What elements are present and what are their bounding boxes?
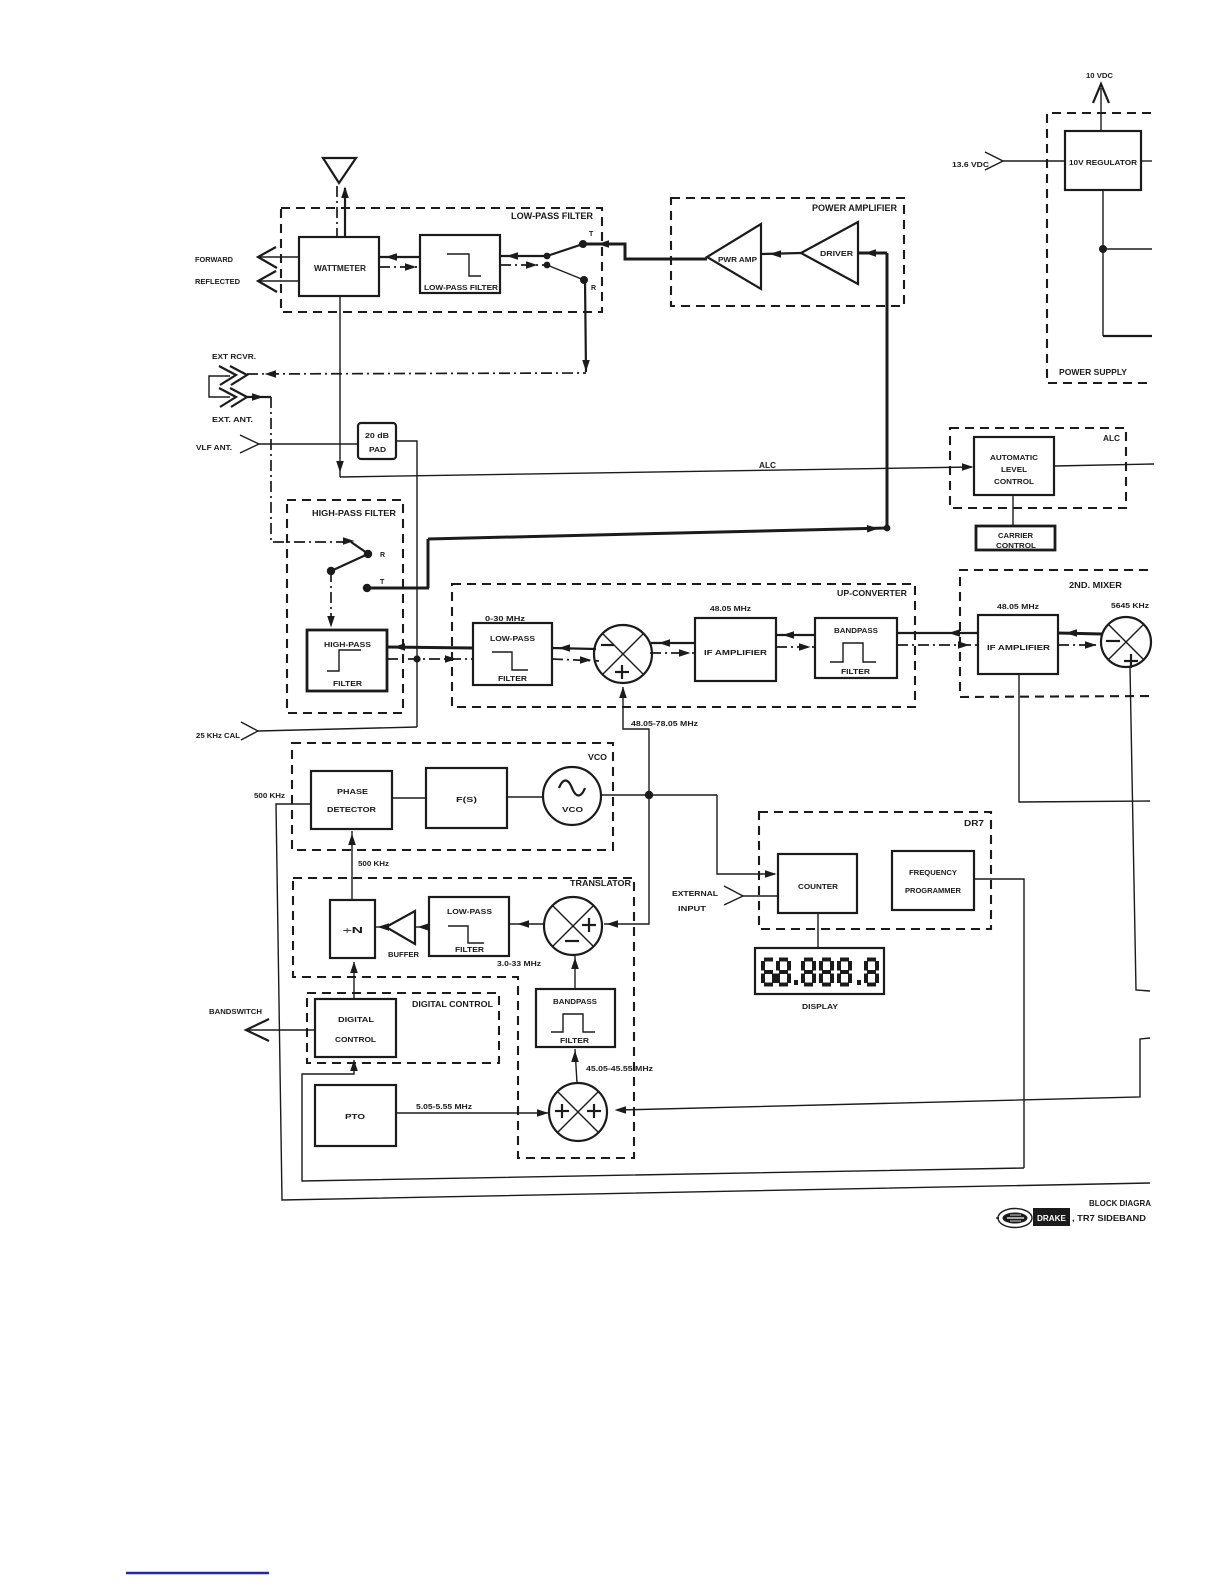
svg-text:COUNTER: COUNTER xyxy=(798,882,839,891)
label 10 VDC xyxy=(1086,73,1113,80)
wire buffer input xyxy=(415,923,429,931)
logo Drake oval xyxy=(996,1209,1032,1228)
svg-text:3.0-33 MHz: 3.0-33 MHz xyxy=(497,961,542,968)
wire 2nd IF to mixer TX xyxy=(1058,629,1102,637)
node junction RX line xyxy=(413,655,420,662)
wire vlf ant to pad xyxy=(259,443,358,445)
svg-text:FILTER: FILTER xyxy=(333,679,363,688)
block IF AMPLIFIER xyxy=(695,618,776,681)
wire IF amp to bandpass RX dash-dot xyxy=(776,643,815,651)
dashed enclosure HIGH-PASS FILTER xyxy=(287,500,403,713)
svg-text:ALC: ALC xyxy=(759,461,776,470)
svg-text:PHASE: PHASE xyxy=(337,787,368,796)
svg-text:POWER AMPLIFIER: POWER AMPLIFIER xyxy=(812,203,897,214)
block PTO xyxy=(315,1085,396,1146)
svg-text:48.05 MHz: 48.05 MHz xyxy=(710,604,751,613)
wire high-pass output RX dash-dot xyxy=(387,655,473,663)
node R (low-pass filter) xyxy=(580,276,596,292)
label REFLECTED xyxy=(195,277,241,286)
block LOW-PASS FILTER (translator) xyxy=(429,897,509,956)
wire mixer M4 to bandpass xyxy=(571,1049,579,1083)
svg-text:LOW-PASS: LOW-PASS xyxy=(447,907,492,916)
wire IF amp to bandpass TX xyxy=(776,631,815,639)
svg-text:FILTER: FILTER xyxy=(560,1036,590,1045)
wire VCO to counter xyxy=(717,795,777,878)
block BANDPASS FILTER xyxy=(815,618,897,678)
svg-text:, TR7 SIDEBAND: , TR7 SIDEBAND xyxy=(1072,1213,1146,1223)
amplifier DRIVER xyxy=(801,222,858,284)
oscillator VCO xyxy=(543,767,601,825)
svg-text:R: R xyxy=(591,285,596,292)
svg-text:INPUT: INPUT xyxy=(678,904,707,913)
svg-text:DIGITAL: DIGITAL xyxy=(338,1015,374,1024)
label EXT ANT xyxy=(212,415,253,424)
wire regulator down branch xyxy=(1099,190,1152,336)
label 48.05 MHz (2nd mixer) xyxy=(997,604,1040,611)
node T (low-pass filter) xyxy=(579,231,594,248)
label 48.05 MHz xyxy=(710,604,751,613)
wire VCO injection to mixer M1 xyxy=(619,687,649,796)
label 13.6 VDC xyxy=(952,162,989,169)
svg-text:IF AMPLIFIER: IF AMPLIFIER xyxy=(987,643,1051,652)
svg-text:PWR AMP: PWR AMP xyxy=(718,257,757,264)
wire ext rcvr line dash-dot xyxy=(247,370,586,378)
wire ALC output right xyxy=(1054,464,1154,466)
label ALC (wire) xyxy=(759,461,776,470)
svg-text:48.05-78.05 MHz: 48.05-78.05 MHz xyxy=(631,721,699,728)
wire cal input xyxy=(258,727,417,731)
wire mixer M3 to low-pass xyxy=(509,920,544,928)
wire low-pass to mixer RX dash-dot xyxy=(552,656,599,664)
svg-text:÷N: ÷N xyxy=(343,926,363,935)
svg-text:DRAKE: DRAKE xyxy=(1037,1214,1067,1223)
node T (high-pass filter) xyxy=(363,579,385,592)
svg-text:HIGH-PASS: HIGH-PASS xyxy=(324,640,371,649)
wire regulator output right xyxy=(1141,160,1152,162)
svg-text:ALC: ALC xyxy=(1103,433,1120,443)
block 20 dB PAD xyxy=(358,423,396,459)
svg-text:BUFFER: BUFFER xyxy=(388,952,419,959)
wire ext ant to RX riser xyxy=(247,393,271,401)
block PHASE DETECTOR xyxy=(311,771,392,829)
block HIGH-PASS FILTER xyxy=(307,630,387,691)
chevron input 13.6 VDC xyxy=(985,152,1003,170)
bracket linking ext connectors xyxy=(209,376,230,397)
svg-text:PTO: PTO xyxy=(345,1112,365,1121)
label TR7 SIDEBAND xyxy=(1072,1213,1146,1223)
wire F(S) to VCO xyxy=(507,796,543,798)
node R (high-pass filter) xyxy=(364,550,385,559)
label BLOCK DIAGRAM (cut) xyxy=(1089,1198,1151,1208)
wire RX riser dash-dot xyxy=(271,397,367,553)
svg-text:2ND. MIXER: 2ND. MIXER xyxy=(1069,580,1122,590)
wire TX riser to driver xyxy=(884,253,891,531)
block LOW-PASS FILTER xyxy=(420,235,500,293)
svg-text:UP-CONVERTER: UP-CONVERTER xyxy=(837,588,907,598)
svg-text:FILTER: FILTER xyxy=(841,667,871,676)
wire ALC to carrier control xyxy=(1012,495,1014,527)
dashed enclosure UP-CONVERTER xyxy=(452,584,915,707)
dashed enclosure VCO xyxy=(292,743,613,850)
svg-text:LEVEL: LEVEL xyxy=(1001,467,1028,474)
wire VCO to translator mixer xyxy=(604,795,649,928)
svg-text:DISPLAY: DISPLAY xyxy=(802,1002,838,1011)
wire 2nd IF output down xyxy=(1019,674,1150,802)
block AUTOMATIC LEVEL CONTROL xyxy=(974,437,1054,495)
svg-text:FILTER: FILTER xyxy=(498,674,528,683)
block FREQUENCY PROGRAMMER xyxy=(892,851,974,910)
wire antenna feed (RX dash-dot) xyxy=(336,186,338,237)
label 0-30 MHz xyxy=(485,614,525,623)
svg-text:25 KHz CAL: 25 KHz CAL xyxy=(196,731,240,740)
block F(S) xyxy=(426,768,507,828)
svg-text:BANDPASS: BANDPASS xyxy=(553,997,597,1006)
dashed enclosure DIGITAL CONTROL xyxy=(307,993,499,1063)
label EXT RCVR xyxy=(212,352,256,361)
wire low-pass to mixer TX xyxy=(552,644,596,652)
label EXTERNAL INPUT xyxy=(672,889,718,913)
arrow bandswitch output xyxy=(246,1019,315,1041)
wire bandpass to 2nd IF TX xyxy=(897,629,978,637)
wire pivot to high-pass filter dash-dot xyxy=(327,571,335,628)
svg-text:HIGH-PASS FILTER: HIGH-PASS FILTER xyxy=(312,508,396,518)
label 25 KHz CAL xyxy=(196,731,240,740)
dashed enclosure 2ND MIXER xyxy=(960,570,1152,697)
svg-text:LOW-PASS: LOW-PASS xyxy=(490,634,535,643)
arrow 10 VDC output xyxy=(1093,84,1109,131)
switch arm xyxy=(327,554,368,575)
wire T contact to power amplifier xyxy=(583,240,707,259)
svg-text:IF AMPLIFIER: IF AMPLIFIER xyxy=(704,648,768,657)
svg-text:T: T xyxy=(589,231,594,238)
connector EXT RCVR double chevron xyxy=(219,366,247,385)
wire band data to digital control xyxy=(302,1060,1024,1182)
svg-text:5645 KHz: 5645 KHz xyxy=(1111,603,1150,610)
wire bandpass to 2nd IF RX dash-dot xyxy=(897,641,978,649)
svg-text:EXTERNAL: EXTERNAL xyxy=(672,889,718,898)
wire phase detector to F(S) xyxy=(392,797,426,799)
wire driver to pwr amp xyxy=(761,250,801,258)
label FORWARD xyxy=(195,255,234,264)
logo DRAKE nameplate xyxy=(1033,1208,1070,1226)
dashed enclosure LOW-PASS FILTER xyxy=(281,208,602,312)
svg-text:CONTROL: CONTROL xyxy=(335,1035,376,1044)
dashed enclosure POWER SUPPLY xyxy=(1047,113,1151,383)
wire divider to phase detector xyxy=(348,831,356,900)
mixer M4 (pre-translator) xyxy=(549,1083,607,1141)
wire TX line from high-pass filter T xyxy=(367,525,887,588)
mixer M3 (translator) xyxy=(544,897,602,955)
svg-text:VCO: VCO xyxy=(562,807,584,814)
svg-text:48.05 MHz: 48.05 MHz xyxy=(997,604,1040,611)
dashed enclosure DR7 xyxy=(759,812,991,929)
wire filter to R contact RX dash-dot xyxy=(500,261,584,280)
dashed enclosure TRANSLATOR xyxy=(293,878,634,1158)
wire PTO to mixer M4 xyxy=(396,1109,549,1117)
svg-text:CONTROL: CONTROL xyxy=(996,543,1037,550)
svg-text:DR7: DR7 xyxy=(964,819,985,828)
svg-text:VLF ANT.: VLF ANT. xyxy=(196,443,232,452)
wire filter to T contact TX xyxy=(500,244,583,260)
amplifier PWR AMP xyxy=(707,224,761,289)
svg-text:20 dB: 20 dB xyxy=(365,433,389,440)
mixer M2 (2nd mixer) xyxy=(1101,617,1151,668)
wire 500 KHz reference loop xyxy=(276,804,1150,1200)
block DISPLAY (7-segment readout) xyxy=(755,948,884,994)
wire R contact down to ext rcvr line xyxy=(582,280,590,372)
svg-text:AUTOMATIC: AUTOMATIC xyxy=(990,455,1038,462)
svg-text:POWER SUPPLY: POWER SUPPLY xyxy=(1059,367,1127,377)
label 48.05-78.05 MHz xyxy=(631,721,699,728)
wire mixer to IF amp RX dash-dot xyxy=(650,649,695,657)
mixer M1 (up-converter) xyxy=(594,625,652,683)
svg-text:FREQUENCY: FREQUENCY xyxy=(909,868,957,877)
dashed enclosure POWER AMPLIFIER xyxy=(671,198,904,306)
wire mixer to IF amp TX xyxy=(651,639,695,647)
svg-text:FILTER: FILTER xyxy=(455,945,485,954)
svg-text:REFLECTED: REFLECTED xyxy=(195,277,241,286)
svg-text:PAD: PAD xyxy=(369,447,386,454)
svg-text:BANDPASS: BANDPASS xyxy=(834,626,878,635)
label 500 KHz (reference) xyxy=(254,793,286,800)
wire VCO output xyxy=(601,791,717,799)
block divide-by-N xyxy=(330,900,375,958)
svg-text:T: T xyxy=(380,579,385,586)
label 500 KHz (divider output) xyxy=(358,861,390,868)
svg-text:BLOCK DIAGRA: BLOCK DIAGRA xyxy=(1089,1198,1151,1208)
wire counter to display xyxy=(817,913,819,948)
label 5645 KHz xyxy=(1111,603,1150,610)
svg-text:R: R xyxy=(380,552,385,559)
wire divider input xyxy=(375,923,389,931)
svg-text:VCO: VCO xyxy=(588,753,607,762)
chevron 25 KHz CAL xyxy=(241,722,258,740)
svg-text:5.05-5.55 MHz: 5.05-5.55 MHz xyxy=(416,1104,473,1111)
block DIGITAL CONTROL xyxy=(315,999,396,1057)
label 3.0-33 MHz xyxy=(497,961,542,968)
wire 13.6 VDC to regulator xyxy=(1003,160,1065,162)
svg-text:EXT RCVR.: EXT RCVR. xyxy=(212,352,256,361)
chevron external input xyxy=(724,886,743,905)
svg-text:500 KHz: 500 KHz xyxy=(358,861,390,868)
svg-text:10V REGULATOR: 10V REGULATOR xyxy=(1069,160,1137,167)
chevron VLF ANT xyxy=(240,435,259,453)
label 5.05-5.55 MHz xyxy=(416,1104,473,1111)
svg-text:13.6 VDC: 13.6 VDC xyxy=(952,162,989,169)
chevron arrow REFLECTED xyxy=(258,271,299,292)
svg-text:DRIVER: DRIVER xyxy=(820,251,853,258)
block IF AMPLIFIER (2nd) xyxy=(978,615,1058,674)
svg-text:BANDSWITCH: BANDSWITCH xyxy=(209,1007,262,1016)
connector EXT ANT double chevron xyxy=(219,388,247,407)
svg-text:500 KHz: 500 KHz xyxy=(254,793,286,800)
wire pad output down xyxy=(396,441,417,727)
antenna xyxy=(323,158,356,183)
label BANDSWITCH xyxy=(209,1007,262,1016)
svg-text:FORWARD: FORWARD xyxy=(195,255,234,264)
chevron arrow FORWARD xyxy=(258,247,299,268)
wire 5645 injection return xyxy=(615,1038,1151,1114)
svg-text:F(S): F(S) xyxy=(456,795,478,804)
wire 2nd IF to mixer RX dash-dot xyxy=(1058,641,1102,649)
wire digital control to divider xyxy=(350,962,358,1000)
blue underline mark xyxy=(126,1572,269,1574)
wire frequency programmer output xyxy=(974,879,1024,1168)
svg-text:LOW-PASS FILTER: LOW-PASS FILTER xyxy=(511,211,593,222)
wire high-pass output TX xyxy=(387,643,473,651)
svg-text:CARRIER: CARRIER xyxy=(998,533,1033,540)
svg-text:LOW-PASS FILTER: LOW-PASS FILTER xyxy=(424,285,498,292)
wire mixer M2 output down xyxy=(1130,667,1150,991)
svg-text:EXT. ANT.: EXT. ANT. xyxy=(212,415,253,424)
wire antenna feed (TX) xyxy=(341,187,349,238)
svg-text:TRANSLATOR: TRANSLATOR xyxy=(570,878,631,888)
wire bandpass to mixer M3 xyxy=(571,956,579,989)
dashed enclosure ALC xyxy=(950,428,1126,508)
svg-text:DIGITAL CONTROL: DIGITAL CONTROL xyxy=(412,999,493,1009)
block 10V REGULATOR xyxy=(1065,131,1141,190)
wire wattmeter to filter TX xyxy=(379,253,420,261)
block LOW-PASS FILTER 0-30 MHz xyxy=(473,623,552,685)
svg-text:0-30 MHz: 0-30 MHz xyxy=(485,614,525,623)
block COUNTER xyxy=(778,854,857,913)
label 45.05-45.55 MHz xyxy=(586,1066,654,1073)
svg-text:PROGRAMMER: PROGRAMMER xyxy=(905,886,962,895)
svg-text:WATTMETER: WATTMETER xyxy=(314,264,366,273)
label DISPLAY xyxy=(802,1002,838,1011)
buffer amplifier xyxy=(386,911,419,959)
wire wattmeter to ALC xyxy=(336,296,973,477)
svg-text:10 VDC: 10 VDC xyxy=(1086,73,1113,80)
svg-text:CONTROL: CONTROL xyxy=(994,479,1035,486)
wire external input to counter xyxy=(743,895,778,897)
label VLF ANT xyxy=(196,443,232,452)
wire input to driver xyxy=(858,249,887,257)
block BANDPASS FILTER (translator) xyxy=(536,989,615,1047)
svg-text:45.05-45.55 MHz: 45.05-45.55 MHz xyxy=(586,1066,654,1073)
block WATTMETER xyxy=(299,237,379,296)
wire wattmeter to filter RX dash-dot xyxy=(379,263,420,271)
block CARRIER CONTROL xyxy=(976,526,1055,550)
svg-text:DETECTOR: DETECTOR xyxy=(327,805,377,814)
